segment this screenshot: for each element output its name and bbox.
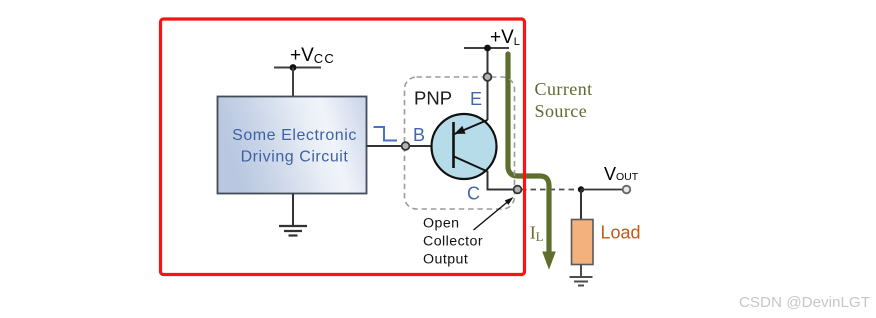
svg-text:Driving Circuit: Driving Circuit [241,149,349,166]
svg-text:VOUT: VOUT [604,164,639,184]
svg-text:Current: Current [535,79,593,99]
svg-text:Some Electronic: Some Electronic [232,127,357,144]
svg-text:C: C [467,184,480,204]
svg-text:Load: Load [601,223,641,243]
svg-text:Source: Source [535,101,588,121]
svg-text:Output: Output [423,252,468,268]
svg-text:IL: IL [530,223,544,245]
svg-text:PNP: PNP [414,87,452,108]
svg-text:B: B [413,125,425,145]
svg-text:CSDN @DevinLGT: CSDN @DevinLGT [739,294,870,311]
svg-text:E: E [470,89,482,109]
svg-text:Open: Open [423,216,460,232]
svg-text:Collector: Collector [423,234,483,250]
svg-text:+VL: +VL [490,27,520,48]
svg-text:+VCC: +VCC [290,45,335,66]
